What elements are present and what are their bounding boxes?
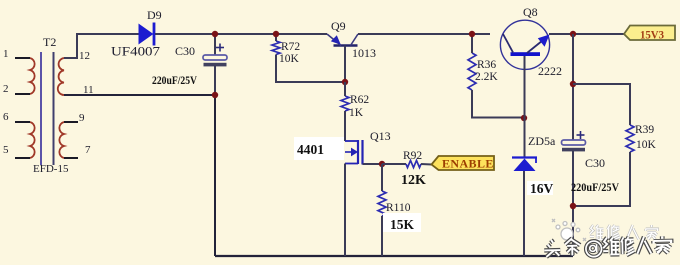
svg-text:R92: R92 [403,150,422,162]
svg-text:ZD5a: ZD5a [528,134,556,148]
transistor Q9 PNP [327,34,358,82]
port flag 15V3 [624,26,675,42]
pin 1 stub [15,57,30,59]
wire Q8 emitter to 15V3 [549,33,624,35]
node dot R36/Q8 base [521,115,527,121]
node dot R72 top [273,31,279,37]
T2 winding lower-left (pins 6-5) [30,122,35,158]
node dot Q13 gate [379,161,385,167]
svg-text:C30: C30 [175,44,195,58]
white patch behind 16V [527,181,553,195]
T2 winding lower-right (pins 9-7) [59,122,64,158]
svg-text:9: 9 [79,112,85,124]
watermark line1 logo [552,219,586,241]
wire Q9 collector rail to Q8 [358,33,490,35]
svg-text:R110: R110 [386,202,411,214]
svg-text:7: 7 [85,144,91,156]
svg-text:Q9: Q9 [331,19,346,33]
watermark line1 text 维修人家 [590,225,658,240]
node dot pin11/C30 [212,92,218,98]
svg-text:5: 5 [3,144,9,156]
svg-text:R72: R72 [281,41,300,53]
T2 winding primary upper-left (pins 1-2) [30,58,35,94]
node dot C30 right bottom [570,203,576,209]
svg-text:UF4007: UF4007 [111,45,160,59]
resistor R72 [272,41,280,55]
svg-text:1: 1 [3,48,9,60]
wire rail to R36 [471,34,473,53]
svg-text:12: 12 [79,50,90,62]
svg-text:R62: R62 [350,94,369,106]
wire node to R62 [344,82,346,96]
svg-text:220uF/25V: 220uF/25V [571,182,620,194]
svg-text:15V3: 15V3 [640,28,664,42]
capacitor C30 right [562,131,586,256]
T2 winding upper-right (pins 12-11) [58,58,64,95]
white patch behind 15K [383,213,421,232]
resistor R110 [378,191,386,216]
svg-text:16V: 16V [530,181,554,196]
svg-text:EFD-15: EFD-15 [33,163,69,175]
pin 2 stub [15,93,30,95]
svg-text:1013: 1013 [352,46,376,60]
wire R36 to Q8 base [472,90,524,118]
svg-text:2222: 2222 [538,64,562,78]
svg-text:2: 2 [3,83,9,95]
svg-text:ENABLE: ENABLE [442,157,494,171]
mosfet Q13 [345,111,382,256]
wire branch to R39 [573,84,630,125]
watermark line2 text 头条@维修人家 [544,236,671,258]
node dot output [570,31,576,37]
svg-text:Q8: Q8 [523,5,538,19]
wire R110 to ground rail [381,216,383,256]
svg-text:1K: 1K [349,107,364,119]
svg-text:2.2K: 2.2K [475,71,498,83]
zener ZD5a [512,158,537,257]
wire rail to R72 [275,34,277,41]
wire R39 bottom to node [573,152,630,206]
wire output node down to C30 right [572,34,574,140]
svg-text:D9: D9 [147,8,162,22]
svg-text:6: 6 [3,111,9,123]
svg-text:15K: 15K [390,217,415,232]
node dot rail/C30 [212,31,218,37]
resistor R39 [626,125,634,152]
wire R92 to ENABLE flag [421,163,432,166]
node dot branch R39 [570,81,576,87]
resistor R36 [468,53,476,90]
node dot R36 top [469,31,475,37]
port flag ENABLE [432,156,495,171]
svg-text:R39: R39 [635,124,654,136]
wire R110 drop [381,164,383,191]
wire diode cathode to Q9 emitter [155,33,327,35]
svg-text:12K: 12K [401,173,426,188]
wire R72 to Q9 base node [276,55,345,83]
diode D9 [139,23,154,46]
pin 7 stub [64,157,78,159]
transistor Q8 [500,20,549,157]
svg-text:R36: R36 [477,59,496,71]
wire gate node to R92 [382,163,406,165]
ground rail [215,255,573,257]
pin 9 stub [64,121,78,123]
resistor R62 [341,96,349,111]
svg-text:10K: 10K [279,53,300,65]
svg-text:4401: 4401 [297,142,324,157]
transformer T2 core lines [41,52,54,165]
node dot Q9 base [342,79,348,85]
wire ground drop left [214,95,216,256]
white patch behind 4401 [294,137,344,160]
resistor R92 [406,160,421,167]
wire pin12 to diode anode [64,34,139,58]
wire pin11 to ground drop [64,94,215,96]
pin 6 stub [15,121,30,123]
svg-text:Q13: Q13 [370,129,391,143]
svg-text:220uF/25V: 220uF/25V [152,75,198,87]
pin 5 stub [15,157,30,159]
svg-text:C30: C30 [585,156,605,170]
svg-text:10K: 10K [636,139,657,151]
capacitor C30 left [203,34,227,95]
svg-text:T2: T2 [43,35,56,49]
